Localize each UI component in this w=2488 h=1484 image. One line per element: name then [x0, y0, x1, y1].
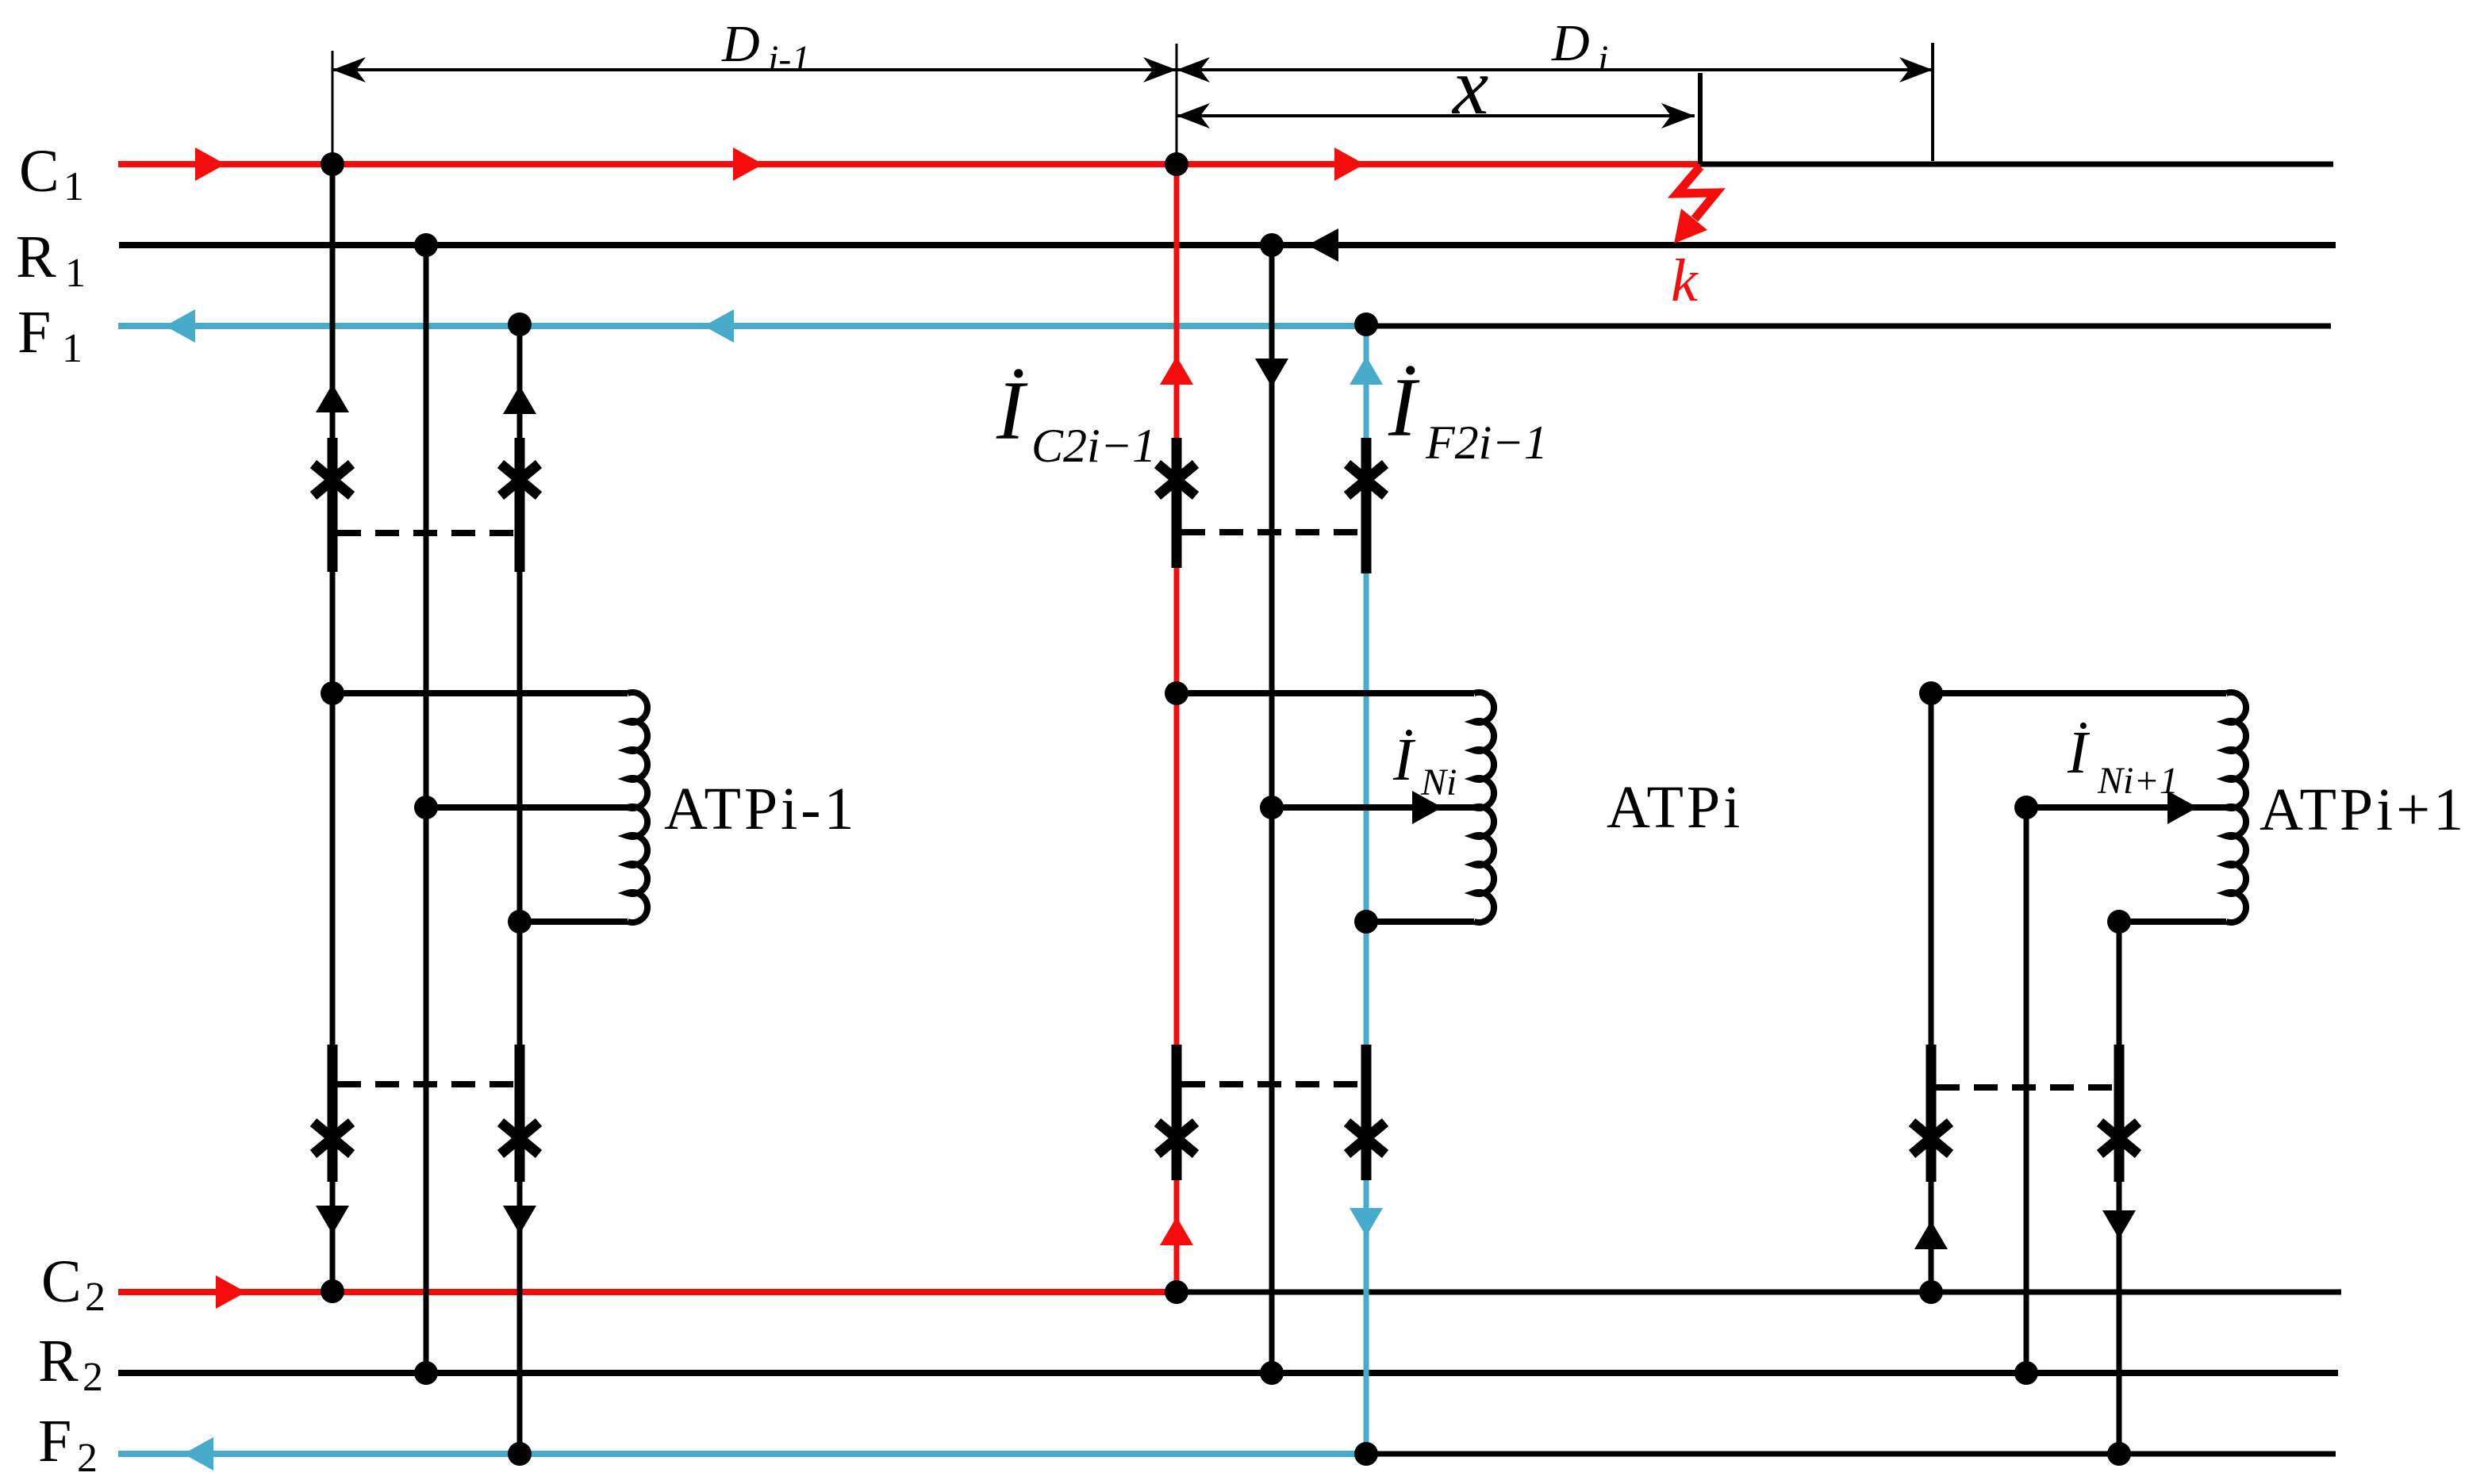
svg-text:F2i−1: F2i−1 — [1425, 416, 1548, 469]
current arrow down on column x=655 bottom — [503, 1206, 536, 1234]
ATPi bottom tap wire — [1366, 918, 1474, 925]
junction dot R2 x=2554 — [2014, 1361, 2038, 1385]
svg-text:D: D — [1551, 14, 1590, 72]
svg-text:x: x — [1451, 42, 1488, 132]
wire C1 red section — [118, 161, 1700, 167]
breaker X bottom x=419 — [313, 1122, 351, 1154]
wire F2 black section — [1366, 1451, 2336, 1457]
junction dot C1 x=1483 — [1165, 152, 1188, 176]
svg-text:İ: İ — [1392, 727, 1416, 793]
wire column x=655 from F1 to F2 — [517, 324, 523, 1454]
svg-text:2: 2 — [77, 1436, 98, 1481]
isolator blade bold segment top x=419 — [328, 438, 338, 572]
isolator blade bold segment bottom x=419 — [328, 1045, 338, 1182]
svg-text:ATPi-1: ATPi-1 — [664, 776, 858, 842]
current arrow on C1 near start — [195, 148, 225, 181]
wire C1 black section after fault — [1700, 162, 2333, 167]
svg-text:F: F — [17, 299, 51, 366]
svg-text:C2i−1: C2i−1 — [1031, 420, 1156, 472]
autotransformer ATPi+1 coil — [2226, 692, 2246, 922]
junction dot ATPi-1 middle tap — [414, 796, 438, 819]
svg-text:i: i — [1598, 38, 1608, 80]
dimension line x — [1177, 114, 1695, 117]
isolator blade bold segment bottom x=2671 — [2114, 1045, 2125, 1182]
autotransformer ATPi coil — [1474, 692, 1494, 922]
dimension extension line at feeder i (x=1483) — [1176, 44, 1178, 159]
ganged isolator dashed link bottom group i — [1181, 1081, 1361, 1087]
svg-text:İ: İ — [996, 364, 1028, 457]
dimension arrow D_i left — [1177, 57, 1210, 82]
wire column x=1722 cyan upper — [1364, 326, 1369, 438]
junction dot F2 x=655 — [508, 1442, 532, 1466]
wire column x=2671 from ATPi+1 to F2 — [2117, 922, 2122, 1454]
junction dot ATPi+1 middle tap — [2014, 796, 2038, 819]
current arrow up on column x=655 — [503, 385, 536, 414]
current arrow on C1 middle — [733, 148, 763, 181]
ATPi+1 bottom tap wire — [2119, 918, 2226, 925]
svg-text:D: D — [721, 15, 760, 73]
breaker X top x=1483 — [1158, 464, 1196, 496]
svg-text:2: 2 — [83, 1355, 103, 1400]
junction dot ATPi+1 bottom tap — [2107, 910, 2131, 934]
svg-text:i-1: i-1 — [768, 38, 810, 80]
ganged isolator dashed link bottom group i-1 — [337, 1081, 515, 1087]
isolator blade bold segment top x=655 — [515, 438, 525, 572]
breaker X bottom x=1722 — [1347, 1122, 1385, 1154]
wire column x=1603 from R1 to R2 — [1269, 245, 1275, 1373]
junction dot R2 x=537 — [414, 1361, 438, 1385]
svg-text:Ni: Ni — [1420, 761, 1457, 803]
current arrow I_Ni on middle tap — [1412, 791, 1442, 824]
wire column x=419 from C1 to C2 — [330, 164, 336, 1291]
junction dot ATPi middle tap — [1260, 796, 1284, 819]
isolator blade bold segment bottom x=655 — [515, 1045, 525, 1182]
svg-text:F: F — [38, 1408, 71, 1474]
junction dot F2 x=1722 — [1354, 1442, 1378, 1466]
ATPi top tap wire — [1177, 690, 1474, 696]
junction dot C1 x=419 — [321, 152, 344, 176]
current arrow on F2 near start — [183, 1437, 213, 1471]
current arrow up on x=1722 top — [1350, 356, 1383, 385]
wire C2 black section — [1177, 1290, 2341, 1295]
isolator blade bold segment bottom x=2434 — [1926, 1045, 1937, 1182]
current arrow up on x=1483 top — [1160, 356, 1193, 385]
dimension tick at ATPi+1 (x=2436) — [1931, 43, 1934, 161]
ATPi-1 bottom tap wire — [520, 918, 628, 925]
current arrow on C1 right of ATPi — [1334, 148, 1365, 181]
junction dot ATPi top tap — [1165, 681, 1188, 705]
junction dot ATPi-1 top tap — [321, 681, 344, 705]
wire R2 — [118, 1370, 2338, 1376]
dimension line D_i-1 — [332, 68, 1177, 71]
svg-text:Ni+1: Ni+1 — [2097, 760, 2179, 802]
fault lightning bolt k — [1677, 167, 1716, 219]
junction dot R1 x=1603 — [1260, 233, 1284, 257]
junction dot F2 x=2671 — [2107, 1442, 2131, 1466]
isolator blade bold segment bottom x=1722 — [1361, 1045, 1372, 1180]
wire column x=1722 cyan middle — [1364, 573, 1369, 1045]
ATPi+1 middle tap wire — [2026, 804, 2226, 811]
breaker X top x=419 — [313, 464, 351, 496]
wire column x=2434 from ATPi+1 to C2 — [1929, 693, 1934, 1291]
wire R1 — [119, 242, 2336, 248]
dimension arrow D_i-1 left — [332, 57, 366, 82]
isolator blade bold segment bottom x=1483 — [1172, 1045, 1182, 1180]
wire F1 cyan section — [118, 323, 1366, 329]
current arrow up on column x=2434 bottom — [1914, 1221, 1948, 1249]
dimension arrow x left — [1177, 103, 1210, 128]
current arrow on F1 near start — [165, 309, 195, 343]
wire F2 cyan section — [118, 1451, 1366, 1457]
breaker X top x=1722 — [1347, 464, 1385, 496]
current arrow on C2 near start — [216, 1275, 246, 1309]
breaker X bottom x=2434 — [1912, 1122, 1950, 1154]
svg-text:İ: İ — [2067, 719, 2091, 786]
wire column x=2554 from ATPi+1 to R2 — [2024, 807, 2029, 1373]
wire column x=1722 cyan lower — [1364, 1180, 1369, 1454]
wire F1 black section right of ATPi — [1366, 324, 2331, 329]
dimension extension line at feeder i-1 (x=419) — [332, 51, 334, 159]
dimension line D_i — [1177, 68, 1933, 71]
svg-text:C: C — [19, 138, 60, 205]
isolator blade bold segment top x=1722 — [1361, 438, 1372, 573]
current arrow down on column x=419 bottom — [316, 1206, 349, 1234]
ATPi middle tap wire — [1272, 804, 1474, 811]
ATPi+1 top tap wire — [1931, 690, 2226, 696]
junction dot C2 x=2434 — [1919, 1280, 1943, 1304]
svg-text:1: 1 — [65, 251, 86, 296]
current arrow down on column x=2671 bottom — [2102, 1210, 2136, 1239]
breaker X bottom x=655 — [501, 1122, 539, 1154]
breaker X bottom x=2671 — [2100, 1122, 2138, 1154]
junction dot F1 x=655 — [508, 313, 532, 336]
junction dot R1 x=537 — [414, 233, 438, 257]
dimension arrow x right — [1661, 103, 1695, 128]
junction dot ATPi-1 bottom tap — [508, 910, 532, 934]
wire column x=1483 red upper — [1174, 164, 1180, 438]
wire column x=1483 red middle — [1174, 568, 1180, 1045]
svg-text:C: C — [41, 1248, 82, 1315]
breaker X top x=655 — [501, 464, 539, 496]
svg-text:ATPi+1: ATPi+1 — [2260, 777, 2467, 843]
dimension arrow D_i-1 right — [1143, 57, 1177, 82]
ATPi-1 top tap wire — [332, 690, 628, 696]
junction dot ATPi bottom tap — [1354, 910, 1378, 934]
isolator blade bold segment top x=1483 — [1172, 438, 1182, 568]
junction dot ATPi+1 top tap — [1919, 681, 1943, 705]
autotransformer ATPi-1 coil — [628, 692, 647, 922]
wire column x=1483 red lower — [1174, 1180, 1180, 1291]
breaker X bottom x=1483 — [1158, 1122, 1196, 1154]
junction dot C2 x=419 — [321, 1279, 344, 1303]
svg-text:1: 1 — [62, 326, 83, 371]
junction dot C2 x=1483 — [1165, 1280, 1188, 1304]
ganged isolator dashed link top group i — [1181, 529, 1361, 535]
ATPi-1 middle tap wire — [426, 804, 628, 811]
svg-text:2: 2 — [85, 1275, 106, 1320]
ganged isolator dashed link bottom group i+1 — [1936, 1084, 2114, 1091]
svg-text:R: R — [16, 224, 56, 290]
svg-text:R: R — [38, 1328, 79, 1394]
svg-text:k: k — [1671, 247, 1699, 314]
ganged isolator dashed link top group i-1 — [337, 530, 515, 536]
wire C2 red section — [118, 1289, 1177, 1295]
svg-text:ATPi: ATPi — [1607, 774, 1743, 841]
current arrow on F1 middle — [704, 309, 734, 343]
junction dot F1 x=1722 — [1354, 313, 1378, 336]
current arrow I_Ni+1 on middle tap — [2167, 791, 2198, 824]
current arrow up on x=1483 bottom — [1160, 1217, 1193, 1245]
current arrow on R1 pointing left — [1307, 228, 1338, 262]
fault point vertical line at x=2143 — [1698, 73, 1703, 164]
svg-text:1: 1 — [63, 164, 84, 209]
svg-text:İ: İ — [1388, 361, 1420, 454]
dimension arrow D_i right — [1899, 57, 1933, 82]
junction dot R2 x=1603 — [1260, 1361, 1284, 1385]
wire column x=537 from R1 to R2 — [424, 245, 429, 1373]
current arrow down on column x=1603 — [1255, 359, 1288, 387]
current arrow down on x=1722 bottom — [1350, 1208, 1383, 1237]
current arrow up on column x=419 — [316, 384, 349, 412]
